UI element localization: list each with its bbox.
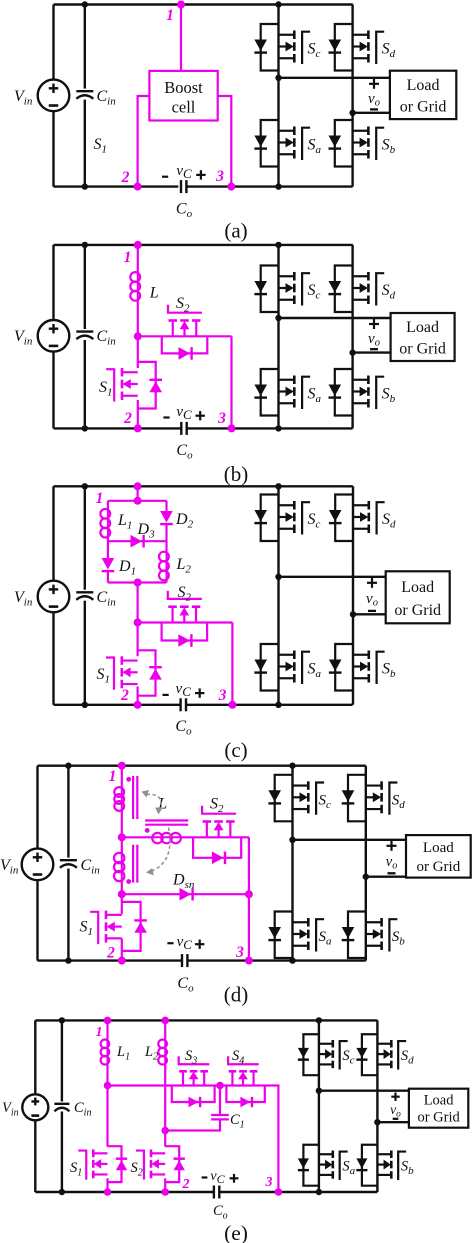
svg-text:Sb: Sb	[382, 386, 396, 406]
wire S2 to node 3 (b)	[230, 336, 232, 428]
junction dot left leg bottom (b)	[275, 425, 281, 431]
junction dot left leg top (c)	[275, 483, 281, 489]
wire S2 to rail (e)	[164, 1178, 166, 1192]
label node 2 (b)	[123, 410, 132, 427]
caption (b)	[224, 462, 249, 486]
svg-text:S2: S2	[176, 295, 190, 315]
label + output (c)	[367, 578, 377, 588]
label Vin (c)	[14, 589, 33, 609]
node 2 dot (c)	[134, 701, 142, 709]
S4 body diode loop (e)	[226, 1086, 264, 1103]
label Sa (b)	[308, 386, 322, 406]
junction dots Cin (c)	[82, 483, 88, 708]
transistor Sd (e)	[356, 1034, 406, 1075]
svg-text:Sd: Sd	[401, 1048, 414, 1067]
node 3 dot (d)	[245, 957, 253, 965]
wire load bottom (d)	[366, 876, 406, 878]
voltage source Vin (a)	[38, 80, 70, 112]
wire winding1 to junctionA (d)	[121, 810, 123, 854]
junction dot mid (b)	[134, 332, 142, 340]
junction dot left leg bottom (e)	[316, 1189, 322, 1195]
fig(a) bottom rail wire right of Co	[187, 185, 352, 187]
label Sa (a)	[308, 137, 322, 157]
junction dot A (d)	[118, 833, 126, 841]
svg-text:or Grid: or Grid	[399, 340, 446, 357]
wire boost right stub to node 3 (a)	[218, 96, 232, 187]
capacitor Co (c)	[181, 698, 186, 711]
capacitor Cin (d)	[58, 858, 78, 869]
load box text (d)	[416, 840, 460, 875]
label + output (d)	[387, 841, 397, 851]
svg-text:Co: Co	[176, 201, 193, 221]
label L2 (e)	[144, 1044, 158, 1063]
caption (c)	[224, 738, 247, 762]
label Co (d)	[177, 975, 194, 995]
junction dot load top (d)	[289, 837, 295, 843]
label L (d)	[157, 795, 167, 812]
load box text (e)	[417, 1092, 460, 1125]
svg-text:L: L	[149, 285, 159, 302]
junction dot load bottom (b)	[349, 349, 355, 355]
svg-text:Sd: Sd	[382, 511, 396, 531]
inductor L2 (e)	[158, 1040, 167, 1065]
svg-text:S2: S2	[178, 584, 192, 604]
svg-text:or Grid: or Grid	[416, 859, 460, 875]
caption (e)	[224, 1221, 248, 1243]
svg-text:Load: Load	[401, 579, 434, 596]
svg-text:Load: Load	[406, 319, 439, 336]
svg-text:Sb: Sb	[401, 1159, 414, 1178]
svg-text:Load: Load	[423, 840, 454, 856]
svg-text:Sc: Sc	[308, 282, 321, 302]
svg-text:3: 3	[235, 944, 244, 961]
svg-text:3: 3	[217, 410, 226, 427]
svg-text:vo: vo	[390, 1102, 401, 1120]
junction dot load top (a)	[275, 75, 281, 81]
wire ring to S-block (c)	[137, 583, 139, 657]
transistor Sa (e)	[298, 1145, 348, 1186]
node 1 dot (b)	[134, 241, 142, 249]
svg-text:cell: cell	[172, 98, 196, 117]
junction dot load top (b)	[275, 315, 281, 321]
label - output (e)	[393, 1118, 399, 1120]
junction dot load top (c)	[275, 574, 281, 580]
label + output (e)	[391, 1093, 399, 1101]
svg-text:Cin: Cin	[81, 857, 101, 877]
capacitor Cin (e)	[53, 1102, 71, 1112]
svg-text:vo: vo	[368, 91, 380, 109]
fig(c) bottom rail right of Co	[186, 704, 353, 706]
svg-text:Co: Co	[176, 442, 193, 462]
wire load bottom (c)	[353, 613, 386, 615]
coupled winding 2 (d)	[114, 853, 124, 881]
label Sd (a)	[382, 41, 396, 61]
svg-text:1: 1	[96, 1025, 103, 1040]
svg-text:(b): (b)	[224, 462, 249, 486]
transistor Sb (a)	[329, 120, 385, 167]
label node 1 (b)	[124, 249, 132, 266]
wire S2 right to node3 (d)	[248, 837, 250, 960]
wire branchB top (e)	[164, 1020, 166, 1039]
label L2 (c)	[176, 556, 192, 576]
svg-text:Sb: Sb	[382, 137, 396, 157]
svg-text:Cin: Cin	[97, 589, 117, 609]
svg-text:L2: L2	[144, 1044, 158, 1063]
svg-text:S4: S4	[232, 1048, 244, 1067]
fig(b) bottom rail left of Co	[54, 427, 182, 429]
junction dot left leg bottom (d)	[289, 957, 295, 963]
transistor S3 (e)	[179, 1056, 210, 1085]
label C1 (e)	[230, 1112, 245, 1131]
capacitor Co (a)	[181, 180, 186, 193]
svg-text:Cin: Cin	[97, 328, 117, 348]
svg-text:Sc: Sc	[342, 1048, 354, 1067]
node 1 dots (e)	[104, 1017, 169, 1025]
svg-text:vC: vC	[176, 163, 192, 181]
transistor S1 (d)	[90, 911, 122, 945]
svg-text:Dsn: Dsn	[172, 872, 195, 892]
label S3 (e)	[185, 1048, 197, 1067]
junction dot load bottom (d)	[363, 874, 369, 880]
capacitor Cin (b)	[75, 329, 95, 340]
wire branchB mid (e)	[164, 1064, 166, 1146]
capacitor Cin (c)	[75, 590, 95, 601]
label - output (a)	[370, 108, 378, 110]
svg-text:Co: Co	[177, 975, 194, 995]
fig(d) top rail wire	[38, 765, 366, 767]
label node 2 (a)	[121, 169, 130, 186]
wire Cin branch (d)	[67, 766, 69, 961]
wire H-bridge left leg (d)	[291, 766, 293, 961]
fig(b) top rail wire	[54, 244, 353, 246]
svg-text:S1: S1	[70, 1160, 82, 1179]
transistor S2 (c)	[168, 591, 202, 623]
ring bottom dot (c)	[134, 579, 142, 587]
wire inductor to junction (b)	[137, 301, 139, 369]
fig(e) top rail wire	[35, 1019, 377, 1021]
label node 2 (c)	[120, 687, 129, 704]
svg-text:2: 2	[121, 169, 130, 186]
svg-text:vC: vC	[177, 934, 193, 952]
fig(d) bottom rail left of Co	[38, 959, 183, 961]
label Sb (c)	[382, 661, 396, 681]
junction dot A (e)	[104, 1082, 112, 1090]
svg-text:Sa: Sa	[342, 1159, 355, 1178]
fig(a) top rail wire	[54, 3, 353, 5]
S3 body diode (e)	[189, 1097, 201, 1107]
svg-text:S1: S1	[80, 919, 94, 939]
wire H-bridge right leg (a)	[351, 5, 353, 187]
ring top dot (c)	[134, 497, 142, 505]
label S1 (d)	[80, 919, 94, 939]
diode D3 (c)	[131, 535, 144, 548]
wire C1 top (e)	[219, 1086, 221, 1116]
svg-text:or Grid: or Grid	[394, 602, 441, 619]
voltage source Vin (e)	[22, 1094, 48, 1120]
wire H-bridge right leg (e)	[376, 1020, 378, 1192]
label vo (b)	[368, 331, 380, 349]
wire Cin branch (a)	[84, 5, 86, 187]
label D1 (c)	[118, 558, 136, 578]
transistor S1 (b)	[106, 368, 138, 402]
label D2 (c)	[175, 511, 194, 531]
load box (b)	[391, 313, 455, 361]
svg-text:Sc: Sc	[319, 792, 332, 811]
svg-text:L1: L1	[116, 1044, 130, 1063]
label Vin (d)	[0, 857, 19, 877]
label S1 (b)	[99, 379, 113, 399]
fig(c) left rail wire	[52, 486, 54, 705]
svg-text:D3: D3	[137, 521, 156, 541]
node 2 dot (a)	[134, 183, 142, 191]
junction dot left leg top (a)	[275, 1, 281, 7]
wire node1 to ring top (c)	[137, 486, 139, 501]
transistor Sa (b)	[254, 369, 310, 416]
S2 body diode (c)	[178, 634, 191, 647]
label node 2 (e)	[182, 1177, 190, 1192]
svg-text:L2: L2	[176, 556, 192, 576]
S1 body diode loop (e)	[108, 1146, 122, 1182]
node 1 dot (d)	[118, 762, 126, 770]
junction dot B (e)	[161, 1127, 169, 1135]
S1 body diode (d)	[134, 920, 147, 932]
label S1 (c)	[97, 666, 111, 686]
svg-text:vC: vC	[210, 1169, 225, 1186]
node 3 dot (a)	[227, 183, 235, 191]
S1 body diode (c)	[149, 667, 162, 679]
label Dsn (d)	[172, 872, 195, 892]
svg-text:Boost: Boost	[164, 78, 203, 97]
inductor L2 (c)	[159, 552, 169, 581]
wire S2 main (c)	[138, 621, 233, 623]
label Co (a)	[176, 201, 193, 221]
svg-text:vo: vo	[366, 591, 378, 609]
label vo (d)	[386, 854, 398, 872]
capacitor Co (e)	[214, 1186, 219, 1199]
junction dot left leg bottom (a)	[275, 183, 281, 189]
wire load top (b)	[279, 317, 391, 319]
node 1 dot (c)	[134, 482, 142, 490]
junction dot B (d)	[118, 890, 126, 898]
load box (e)	[409, 1089, 468, 1128]
label Cin (a)	[97, 88, 117, 108]
inductor L winding (d)	[152, 833, 181, 843]
wire load top (a)	[279, 77, 390, 79]
svg-text:Load: Load	[407, 77, 440, 94]
label Vin (a)	[14, 88, 33, 108]
transistor Sd (b)	[329, 266, 385, 313]
label -vC+ (e)	[202, 1169, 239, 1186]
transistor S2 (b)	[168, 305, 202, 337]
label -vC+ (a)	[162, 163, 206, 181]
transistor S4 (e)	[228, 1056, 259, 1085]
wire H-bridge right leg (d)	[365, 766, 367, 961]
diode D2 (c)	[160, 511, 173, 524]
S2 body diode loop (b)	[162, 336, 208, 353]
wire L to S2 (d)	[180, 836, 249, 838]
wire node1 lead (a)	[180, 5, 182, 71]
load box text (a)	[400, 77, 447, 115]
label Co (b)	[176, 442, 193, 462]
label Co (c)	[175, 718, 192, 738]
transistor Sc (e)	[298, 1034, 348, 1075]
wire Dsn (d)	[122, 893, 249, 895]
junction dot left leg top (e)	[316, 1017, 322, 1023]
svg-text:Sd: Sd	[382, 282, 396, 302]
coupling arrow 1 (d)	[142, 790, 163, 815]
transistor S1 (c)	[106, 656, 138, 690]
fig(a) left rail wire	[52, 5, 54, 187]
transistor Sc (a)	[254, 24, 310, 71]
svg-text:1: 1	[166, 7, 174, 24]
capacitor Co (b)	[181, 422, 186, 435]
S1 bottom dot (e)	[104, 1188, 112, 1196]
fig(c) top rail wire	[54, 485, 353, 487]
svg-text:Vin: Vin	[14, 589, 33, 609]
label L1 (c)	[117, 512, 132, 532]
fig(d) left rail wire	[36, 766, 38, 961]
svg-text:Sc: Sc	[308, 41, 321, 61]
voltage source Vin (c)	[38, 581, 70, 613]
label Sd (b)	[382, 282, 396, 302]
S1 body diode (b)	[149, 380, 162, 392]
junction dot left leg bottom (c)	[275, 702, 281, 708]
label - output (c)	[368, 610, 376, 612]
wire S4 to node3 (e)	[273, 1086, 278, 1193]
svg-text:2: 2	[123, 410, 132, 427]
junction dots Cin (e)	[59, 1017, 65, 1195]
label Sc (c)	[308, 511, 321, 531]
wire load bottom (b)	[353, 351, 391, 353]
label Sc (b)	[308, 282, 321, 302]
load box (d)	[406, 835, 471, 878]
caption (d)	[224, 983, 249, 1007]
svg-text:1: 1	[109, 768, 117, 785]
svg-text:1: 1	[124, 249, 132, 266]
transistor Sb (b)	[329, 369, 385, 416]
label node 3 (a)	[215, 168, 224, 185]
wire load top (c)	[279, 576, 386, 578]
S2 body diode loop (d)	[193, 837, 241, 858]
transistor Sb (c)	[329, 644, 385, 691]
label Cin (b)	[97, 328, 117, 348]
label Sb (a)	[382, 137, 396, 157]
transistor Sb (d)	[342, 912, 398, 959]
svg-text:(c): (c)	[224, 738, 247, 762]
junction dot C1 top (e)	[216, 1082, 224, 1090]
label node 3 (b)	[217, 410, 226, 427]
svg-text:vC: vC	[176, 681, 192, 699]
inductor L1 (e)	[101, 1040, 110, 1065]
label Sb (d)	[392, 929, 406, 948]
svg-text:D2: D2	[175, 511, 194, 531]
label Sd (c)	[382, 511, 396, 531]
inductor L (b)	[130, 272, 140, 301]
transistor S2 (e)	[136, 1150, 165, 1180]
label Sd (d)	[392, 792, 406, 811]
caption (a)	[224, 218, 247, 242]
svg-text:3: 3	[265, 1175, 273, 1190]
wire H-bridge right leg (b)	[351, 245, 353, 429]
svg-text:2: 2	[182, 1177, 190, 1192]
diode Dsn (d)	[180, 888, 193, 901]
label Cin (c)	[97, 589, 117, 609]
S3 body diode loop (e)	[172, 1086, 215, 1103]
wire node1 to winding1 (d)	[121, 766, 123, 789]
coupling arrow 2 (d)	[146, 828, 170, 876]
wire ring right lower (c)	[165, 580, 167, 582]
capacitor Cin (a)	[75, 89, 95, 100]
label Sc (e)	[342, 1048, 354, 1067]
svg-text:or Grid: or Grid	[417, 1109, 460, 1125]
label S1 (a)	[94, 136, 108, 156]
junction dot load bottom (a)	[349, 110, 355, 116]
inductor L1 (c)	[100, 509, 110, 538]
coupled winding 1 (d)	[114, 787, 124, 811]
wire S1 to node 2 (c)	[137, 687, 139, 705]
transistor Sc (c)	[254, 495, 310, 542]
svg-text:Sa: Sa	[319, 929, 333, 948]
wire load bottom (a)	[353, 112, 390, 114]
svg-text:(a): (a)	[224, 218, 247, 242]
label Vin (e)	[2, 1100, 19, 1119]
wire Cin branch (e)	[61, 1020, 63, 1192]
svg-text:Cin: Cin	[97, 88, 117, 108]
S1 body diode loop (d)	[122, 902, 141, 951]
wire S2 to node 3 (c)	[231, 623, 233, 705]
winding2 polarity dot (d)	[126, 879, 131, 884]
load box text (b)	[399, 319, 446, 357]
label S2 (c)	[178, 584, 192, 604]
svg-text:(d): (d)	[224, 983, 249, 1007]
node 1 dot (a)	[177, 1, 185, 9]
node 3 dot (c)	[228, 701, 236, 709]
label -vC+ (b)	[163, 404, 205, 422]
fig(d) bottom rail right of Co	[187, 959, 365, 961]
voltage source Vin (d)	[22, 849, 54, 881]
node 2 dot (e)	[161, 1188, 169, 1196]
label - output (d)	[388, 872, 396, 874]
junction dots Cin (d)	[65, 763, 71, 964]
L core bars (d)	[145, 821, 188, 825]
svg-text:S2: S2	[131, 1160, 143, 1179]
svg-text:Load: Load	[424, 1092, 455, 1108]
fig(b) left rail wire	[52, 245, 54, 429]
wire H-bridge left leg (e)	[318, 1020, 320, 1192]
wire ring right mid (c)	[165, 524, 167, 552]
fig(c) bottom rail left of Co	[54, 704, 181, 706]
wire S1 to node 2 (d)	[121, 939, 123, 961]
wire Cin branch (c)	[84, 486, 86, 705]
fig(e) left rail wire	[34, 1020, 36, 1192]
junction dot load bottom (e)	[374, 1119, 380, 1125]
label node 1 (a)	[166, 7, 174, 24]
svg-text:S1: S1	[99, 379, 113, 399]
wire H-bridge left leg (c)	[277, 486, 279, 705]
diode D1 (c)	[102, 558, 115, 571]
boost cell text (a)	[164, 78, 203, 117]
label node 3 (d)	[235, 944, 244, 961]
wire H-bridge left leg (b)	[277, 245, 279, 429]
transistor Sc (d)	[268, 775, 324, 822]
label -vC+ (d)	[167, 934, 204, 952]
svg-text:S1: S1	[97, 666, 111, 686]
label S4 (e)	[232, 1048, 244, 1067]
label Sa (e)	[342, 1159, 355, 1178]
svg-text:2: 2	[106, 945, 115, 962]
wire ring left lower (c)	[107, 571, 109, 582]
label Sc (d)	[319, 792, 332, 811]
